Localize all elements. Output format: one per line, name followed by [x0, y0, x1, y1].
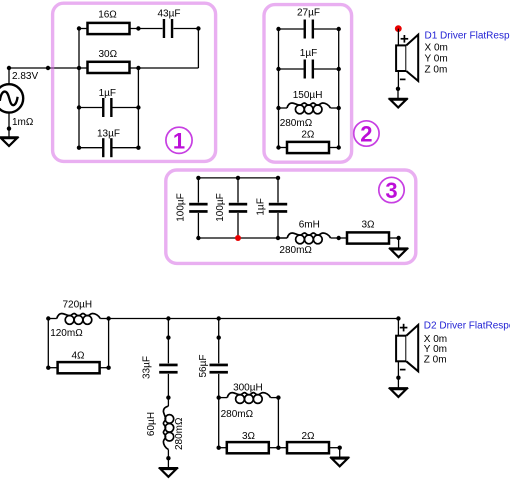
wire 2ohm right — [329, 447, 340, 449]
polarity plus D2 — [400, 324, 408, 332]
wire R 16ohm left — [79, 28, 88, 30]
wire 16ohm to 43uF — [130, 28, 163, 30]
wire source bottom — [8, 113, 10, 129]
wire 4ohm left vertical — [47, 319, 49, 368]
junction D1 ground — [396, 87, 400, 91]
polarity minus D2 — [400, 369, 406, 371]
node input — [46, 66, 50, 70]
wire 3ohm right stub — [269, 447, 279, 449]
inductor 720µH — [48, 314, 108, 325]
wire 300uH right vertical — [277, 398, 279, 448]
inductor 60µH — [163, 398, 173, 458]
wire 3ohm right — [389, 237, 399, 239]
svg-text:280mΩ: 280mΩ — [174, 417, 185, 450]
ground 60uH — [159, 468, 178, 477]
junction b3 top 1 — [196, 176, 200, 180]
junction b2 row3 left — [276, 106, 280, 110]
junction 56uF tap — [217, 316, 221, 320]
capacitor 100µF b — [229, 203, 247, 213]
ground 2ohm — [330, 458, 349, 467]
section number 3 — [379, 177, 404, 203]
junction b3 top 2 — [236, 176, 240, 180]
wire 3ohm to 2ohm — [278, 447, 287, 449]
svg-text:D2 Driver FlatResponse: D2 Driver FlatResponse — [424, 320, 510, 331]
resistor 4Ω — [58, 362, 100, 373]
svg-text:1mΩ: 1mΩ — [12, 117, 34, 128]
svg-text:720µH: 720µH — [62, 300, 92, 311]
junction 33uF tap — [166, 316, 170, 320]
svg-text:280mΩ: 280mΩ — [279, 245, 312, 256]
svg-text:3Ω: 3Ω — [242, 431, 256, 442]
wire 1uF left — [79, 107, 102, 109]
node bottom input — [46, 316, 50, 320]
wire source top — [8, 68, 10, 84]
speaker driver D1 — [396, 35, 418, 81]
filter section box 1 — [53, 3, 216, 161]
junction row3 right — [136, 105, 140, 109]
capacitor 56µF — [210, 364, 228, 374]
wire box3 top — [198, 177, 278, 179]
svg-text:Z 0m: Z 0m — [424, 354, 447, 365]
svg-text:16Ω: 16Ω — [98, 10, 117, 21]
junction row2 right — [136, 66, 140, 70]
polarity plus D1 — [401, 35, 409, 43]
wire cap1 bottom stub — [197, 213, 199, 238]
junction row3 left — [77, 105, 81, 109]
svg-text:1: 1 — [173, 128, 185, 153]
wire R 30ohm left — [79, 67, 88, 69]
junction row1 left — [77, 26, 81, 30]
junction 300uH in — [217, 395, 221, 399]
wire D1 ground stem — [397, 89, 399, 99]
junction 60uH bottom — [166, 456, 170, 460]
capacitor 1µF — [102, 98, 113, 117]
wire source to network 1 — [9, 67, 79, 69]
resistor 30Ω — [88, 62, 130, 73]
svg-text:56µF: 56µF — [198, 355, 209, 378]
svg-text:150µH: 150µH — [293, 90, 323, 101]
wire 3ohm left stub — [219, 447, 227, 449]
junction 3ohm left — [217, 446, 221, 450]
wire 56uF down vertical — [218, 374, 220, 448]
capacitor 100µF a — [189, 203, 207, 213]
capacitor 27µF — [304, 20, 315, 39]
wire b2 2ohm left — [279, 147, 288, 149]
resistor 2Ω bottom — [287, 442, 329, 453]
wire cap3 top stub — [277, 178, 279, 203]
wire source ground stem — [8, 129, 10, 138]
wire box3 bottom left — [198, 237, 287, 239]
wire b3 ground stem — [398, 238, 400, 248]
junction 720uH out — [106, 316, 110, 320]
capacitor 13µF — [102, 138, 113, 157]
junction 60uH top — [166, 395, 170, 399]
wire D1 plus lead — [397, 29, 399, 46]
wire 2ohm ground stem — [339, 448, 341, 458]
wire cap2 top stub — [237, 178, 239, 203]
junction b3 bottom 3 — [276, 236, 280, 240]
svg-text:100µF: 100µF — [175, 193, 186, 222]
wire 13uF right — [112, 147, 138, 149]
svg-text:Z 0m: Z 0m — [425, 65, 448, 76]
svg-text:2Ω: 2Ω — [301, 431, 315, 442]
svg-text:100µF: 100µF — [215, 193, 226, 222]
wire box1 left vertical — [78, 29, 80, 148]
svg-text:1µF: 1µF — [99, 88, 116, 99]
junction 16ohm-43uF — [136, 26, 140, 30]
wire to 3ohm — [339, 237, 347, 239]
wire 56uF top stub — [218, 319, 220, 364]
svg-text:13µF: 13µF — [97, 129, 120, 140]
svg-text:60µH: 60µH — [146, 412, 157, 436]
svg-text:1µF: 1µF — [300, 48, 317, 59]
wire D2 ground stem — [397, 378, 399, 388]
junction row4 right — [136, 146, 140, 150]
svg-text:4Ω: 4Ω — [71, 350, 85, 361]
capacitor 33µF — [159, 364, 177, 374]
svg-text:1µF: 1µF — [256, 198, 267, 215]
resistor 16Ω — [88, 23, 130, 34]
wire R 30ohm right — [130, 67, 139, 69]
junction b2 row2 right — [337, 67, 341, 71]
filter section box 2 — [264, 5, 352, 163]
node red b3 — [235, 235, 241, 241]
svg-text:3Ω: 3Ω — [361, 220, 375, 231]
svg-text:120mΩ: 120mΩ — [50, 328, 83, 339]
junction 4ohm right — [106, 366, 110, 370]
junction 43uF out — [196, 26, 200, 30]
junction 2ohm ground — [338, 446, 342, 450]
ground box3 — [389, 248, 408, 257]
svg-text:27µF: 27µF — [297, 8, 320, 19]
wire bottom main — [109, 318, 399, 320]
resistor 3Ω bottom — [227, 442, 269, 453]
junction b2 row1 right — [337, 27, 341, 31]
junction b2 row2 left — [276, 67, 280, 71]
capacitor 1µF b2 — [304, 60, 315, 79]
svg-text:43µF: 43µF — [158, 9, 181, 20]
voltage source V1 2.83V — [0, 84, 23, 112]
capacitor 43µF — [163, 19, 174, 38]
junction 6mH out — [337, 236, 341, 240]
junction 56uF pin — [217, 335, 221, 339]
wire 1uF right — [112, 107, 138, 109]
section number 1 — [166, 127, 192, 153]
ground source — [0, 137, 19, 146]
junction source top — [7, 66, 11, 70]
svg-text:2: 2 — [360, 122, 372, 147]
wire down to node — [197, 29, 199, 69]
wire b2 1uF left — [279, 68, 304, 70]
junction 4ohm left — [46, 366, 50, 370]
svg-text:280mΩ: 280mΩ — [280, 118, 313, 129]
wire 4ohm left stub — [48, 367, 57, 369]
svg-text:2.83V: 2.83V — [12, 71, 38, 82]
ground D1 — [389, 99, 408, 108]
junction row4 left — [77, 146, 81, 150]
junction 33uF pin — [166, 335, 170, 339]
wire 27uF left — [279, 28, 304, 30]
junction row2 left — [77, 66, 81, 70]
junction b3 bottom 1 — [196, 236, 200, 240]
svg-text:30Ω: 30Ω — [98, 49, 117, 60]
wire 33uF to 60uH — [167, 374, 169, 398]
junction D2 ground — [396, 376, 400, 380]
svg-text:3: 3 — [385, 178, 397, 203]
junction 300uH out — [276, 395, 280, 399]
inductor 300µH — [219, 393, 279, 404]
resistor 3Ω b3 — [347, 232, 389, 243]
svg-text:2Ω: 2Ω — [301, 130, 315, 141]
wire 60uH ground stem — [167, 458, 169, 468]
wire box2 left vertical — [278, 29, 280, 148]
junction 3ohm right — [276, 446, 280, 450]
polarity minus D1 — [400, 78, 406, 80]
wire cap1 top stub — [197, 178, 199, 203]
speaker driver D2 — [396, 325, 418, 371]
junction D2 top — [396, 316, 400, 320]
svg-text:300µH: 300µH — [233, 382, 263, 393]
wire D2 minus lead — [397, 361, 399, 377]
wire 27uF right — [314, 28, 339, 30]
node red D1 — [395, 25, 402, 32]
junction b2 row4 right — [337, 145, 341, 149]
wire 33uF top stub — [167, 319, 169, 364]
wire D1 minus lead — [397, 71, 399, 89]
junction b2 row1 left — [276, 27, 280, 31]
wire 43uF right — [174, 28, 199, 30]
wire 4ohm right stub — [100, 367, 109, 369]
wire b2 1uF right — [314, 68, 339, 70]
svg-text:6mH: 6mH — [299, 220, 320, 231]
section number 2 — [354, 121, 379, 147]
svg-text:280mΩ: 280mΩ — [221, 409, 254, 420]
wire 4ohm right vertical — [108, 319, 110, 368]
wire D2 plus lead — [397, 319, 399, 336]
wire cap2 bottom stub — [237, 213, 239, 238]
wire box1 right vertical — [137, 68, 139, 148]
inductor 6mH — [279, 233, 339, 244]
svg-text:Y 0m: Y 0m — [425, 54, 448, 65]
filter section box 3 — [166, 170, 416, 263]
junction b3 top 3 — [276, 176, 280, 180]
resistor 2Ω — [287, 142, 329, 153]
junction source bottom — [7, 126, 11, 130]
svg-text:D1 Driver FlatResponse: D1 Driver FlatResponse — [425, 31, 510, 42]
wire b2 2ohm right — [329, 147, 339, 149]
ground D2 — [389, 388, 408, 397]
svg-text:X 0m: X 0m — [425, 43, 448, 54]
svg-text:33µF: 33µF — [142, 356, 153, 379]
wire 13uF left — [79, 147, 102, 149]
inductor 150µH — [279, 103, 339, 114]
wire cap3 bottom stub — [277, 213, 279, 238]
capacitor 1µF b3 — [269, 203, 287, 213]
junction b2 row4 left — [276, 145, 280, 149]
wire box2 right vertical — [338, 29, 340, 148]
junction b3 ground — [396, 236, 400, 240]
junction b2 row3 right — [337, 106, 341, 110]
wire row2 right segment — [138, 67, 198, 69]
